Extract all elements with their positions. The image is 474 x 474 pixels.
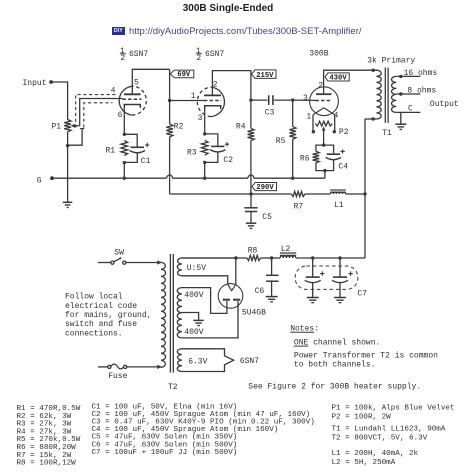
svg-text:R8: R8 — [248, 246, 258, 255]
node C7b tap — [338, 256, 341, 259]
wire R4 to rail — [250, 141, 252, 194]
wire R6C4 bottom — [316, 160, 334, 171]
node Input terminal — [23, 79, 53, 88]
wire V2 filament right to rail — [235, 258, 237, 284]
wire plate1 down — [169, 69, 171, 100]
svg-text:R2 = 62k, 3W: R2 = 62k, 3W — [17, 413, 72, 421]
wire T1 primary bottom — [365, 117, 376, 120]
wire R4 top — [250, 100, 252, 128]
label U:5V — [187, 264, 206, 273]
note follow local code — [65, 293, 151, 339]
wire rail mid — [305, 193, 331, 195]
tube U1b grid — [204, 100, 221, 102]
svg-text:Input: Input — [23, 79, 47, 88]
svg-text:R4 = 27k, 3W: R4 = 27k, 3W — [17, 428, 72, 436]
wire 5V bottom — [182, 276, 228, 285]
svg-text:C7 = 100uF + 100uF JJ (min 500: C7 = 100uF + 100uF JJ (min 500V) — [92, 449, 238, 457]
P2 wiper arrow — [322, 126, 326, 145]
note see figure 2 — [248, 382, 421, 391]
tube U1a cathode — [124, 105, 140, 108]
svg-text:R1 = 470R,0.5W: R1 = 470R,0.5W — [17, 405, 81, 413]
node P2 right end — [333, 130, 336, 133]
tube V1 plate — [316, 93, 332, 95]
node G3 — [291, 98, 294, 101]
wire R6C4 top — [316, 145, 334, 153]
pin 5 label U1a — [134, 78, 139, 87]
svg-text:1: 1 — [191, 92, 196, 101]
wire HV top to left plate — [182, 288, 227, 314]
label 400V upper — [184, 291, 203, 300]
node rectifier out — [234, 256, 237, 259]
wire U1b plate lead — [212, 71, 251, 100]
label SW — [114, 248, 124, 257]
svg-text:5U4GB: 5U4GB — [242, 309, 266, 318]
node plate1 — [168, 99, 171, 102]
wire T1 to PSU — [364, 119, 366, 258]
svg-text:6SN7: 6SN7 — [240, 357, 259, 366]
tube U1b cathode — [205, 106, 221, 109]
ground C5 — [246, 223, 256, 228]
node K1 bottom — [123, 161, 126, 164]
wire grid 300B — [293, 99, 316, 101]
wire U1b cathode lead — [204, 109, 206, 134]
svg-text:R7: R7 — [294, 203, 304, 212]
ground C7a — [307, 298, 319, 303]
transformer T2 primary — [161, 262, 166, 367]
switch SW — [98, 257, 159, 264]
svg-text:R7 = 15k, 2W: R7 = 15k, 2W — [17, 452, 72, 460]
svg-text:connections.: connections. — [65, 329, 123, 338]
note one channel — [294, 338, 380, 347]
pin 2 label V1 — [318, 81, 323, 90]
svg-text:430V: 430V — [329, 74, 347, 82]
wire input to P1 — [51, 82, 68, 120]
wire to bus end — [324, 171, 326, 179]
ground P1 — [63, 202, 73, 207]
label Fuse — [108, 372, 127, 381]
capacitor C2 — [210, 142, 233, 165]
wire 16 ohm tap — [396, 69, 437, 78]
svg-text:5: 5 — [134, 78, 139, 87]
tube V2 filament — [228, 284, 236, 290]
inductor L2 — [280, 245, 296, 258]
wire B+ rail — [182, 257, 365, 259]
shield dashed outer — [76, 95, 118, 128]
svg-text:3: 3 — [198, 114, 203, 123]
transformer T2 core — [170, 254, 173, 373]
ground T1 common — [395, 112, 406, 129]
shield dashed inner — [84, 103, 113, 128]
callout 69V — [170, 70, 194, 79]
wire R5 top — [292, 100, 294, 126]
wire HV bottom to right plate — [182, 301, 238, 338]
resistor R2 — [166, 123, 183, 137]
svg-text:2: 2 — [196, 54, 201, 63]
svg-text:L2 = 5H, 250mA: L2 = 5H, 250mA — [332, 459, 396, 467]
node G terminal — [37, 176, 54, 185]
node cathode net top — [322, 143, 325, 146]
svg-text:See Figure 2 for 300B heater s: See Figure 2 for 300B heater supply. — [248, 382, 421, 391]
svg-text:R2: R2 — [174, 123, 184, 132]
resistor R3 — [187, 140, 208, 157]
tube V1 grid — [316, 100, 333, 102]
pin 1 label V1 — [306, 113, 311, 122]
wire K2 to bus — [204, 162, 206, 178]
P1 wiper arrow — [71, 124, 80, 128]
wire C1 bottom — [124, 153, 137, 163]
svg-text:for mains, ground,: for mains, ground, — [65, 311, 151, 320]
svg-text:R5: R5 — [276, 137, 286, 146]
wire 5V top — [182, 257, 236, 259]
svg-text:3k Primary: 3k Primary — [367, 57, 415, 66]
capacitor C7 dashed outline — [295, 266, 358, 289]
wire rail right — [346, 193, 365, 195]
DIY badge — [112, 27, 125, 35]
svg-text:U:5V: U:5V — [187, 264, 206, 273]
svg-text:Power Transformer T2 is common: Power Transformer T2 is common — [294, 352, 438, 361]
svg-text:6: 6 — [118, 111, 123, 120]
pin 3 label V1 — [303, 94, 308, 103]
node R3C2 on bus — [203, 177, 206, 180]
svg-text:1: 1 — [306, 113, 311, 122]
svg-text:R3: R3 — [187, 149, 197, 158]
svg-text:8 ohms: 8 ohms — [407, 87, 436, 96]
svg-text:P2 = 100R, 2W: P2 = 100R, 2W — [332, 414, 392, 422]
resistor R1 — [106, 141, 128, 156]
node R5 on bus — [291, 177, 294, 180]
potentiometer P1 — [52, 120, 72, 132]
svg-text:400V: 400V — [184, 328, 203, 337]
wire U1a cathode lead — [123, 108, 125, 134]
wire plate2 to C3 — [251, 99, 268, 101]
title 300B Single-Ended — [0, 3, 456, 14]
pin 6 label U1a — [118, 111, 123, 120]
capacitor C1 — [130, 143, 151, 166]
pin 2 label U1b — [213, 80, 218, 89]
svg-text:C: C — [408, 105, 413, 114]
capacitor C6 — [255, 258, 279, 296]
node cathode net bottom — [323, 169, 326, 172]
svg-text:L1 = 200H, 40mA, 2k: L1 = 200H, 40mA, 2k — [332, 450, 419, 458]
resistor R4 — [236, 123, 254, 141]
svg-text:R1: R1 — [106, 147, 116, 156]
tube U1a grid — [123, 98, 142, 100]
svg-text:C1: C1 — [141, 157, 151, 166]
ground center tap — [193, 320, 204, 325]
svg-text:C3: C3 — [265, 108, 275, 117]
tube V1 label 300B — [309, 49, 328, 58]
capacitor C7a — [305, 258, 325, 297]
node P2 left end — [312, 130, 315, 133]
svg-text:3: 3 — [303, 94, 308, 103]
node plate2 — [249, 98, 252, 101]
value list capacitors — [92, 403, 315, 457]
tube V2 envelope 5U4GB — [218, 284, 243, 309]
svg-text:electrical code: electrical code — [65, 302, 137, 311]
tube U1b label 1/2 6SN7 — [196, 47, 225, 63]
capacitor C7b — [332, 258, 353, 297]
svg-text:to both channels.: to both channels. — [294, 361, 376, 370]
svg-text:300B: 300B — [309, 49, 328, 58]
wire C1 top branch — [124, 134, 137, 146]
svg-text:C7: C7 — [357, 289, 367, 298]
label 400V lower — [184, 328, 203, 337]
svg-text:T2: T2 — [168, 383, 178, 392]
wire 6.3V flag — [182, 349, 234, 372]
inductor L1 — [330, 190, 346, 210]
svg-text:R6: R6 — [300, 155, 310, 164]
pin 4 label U1a — [111, 86, 116, 95]
svg-text:6SN7: 6SN7 — [205, 50, 224, 59]
resistor R7 — [291, 191, 305, 211]
svg-text:R3 = 27k, 3W: R3 = 27k, 3W — [17, 421, 72, 429]
svg-text:R6 = 880R,20W: R6 = 880R,20W — [17, 444, 77, 452]
transformer T1 primary — [376, 70, 381, 119]
svg-text:P1 = 100k, Alps Blue Velvet: P1 = 100k, Alps Blue Velvet — [332, 405, 455, 413]
svg-text:C5: C5 — [262, 213, 272, 222]
label 6SN7 heaters — [240, 357, 259, 366]
tube V1 filament — [313, 108, 335, 115]
op tube U1a envelope — [119, 86, 146, 115]
tube U1b plate — [204, 94, 221, 96]
fuse F1 — [98, 364, 162, 369]
wire HV center tap — [182, 313, 199, 321]
node 290V — [249, 192, 252, 195]
node R1C1 on bus — [123, 177, 126, 180]
svg-text:R4: R4 — [236, 123, 246, 132]
callout 215V — [252, 70, 276, 80]
node T1 primary top — [372, 69, 375, 72]
callout 290V — [252, 183, 277, 193]
node rail tap — [363, 192, 366, 195]
potentiometer P2 — [315, 121, 348, 137]
wire rail left — [170, 193, 292, 195]
svg-text:C2: C2 — [223, 156, 233, 165]
transformer T2 6.3V winding — [177, 349, 182, 372]
value list resistors — [17, 405, 81, 468]
transformer T1 secondary — [391, 76, 396, 112]
transformer T2 5V winding — [177, 258, 182, 276]
svg-text:switch and fuse: switch and fuse — [65, 320, 137, 329]
node P1-shield junction — [66, 144, 69, 147]
wire R5 to bus — [292, 139, 294, 178]
wire C3 to grid node — [274, 99, 293, 101]
node K2 bottom — [203, 161, 206, 164]
wire U1a plate lead — [132, 69, 169, 93]
ground C7b — [334, 298, 346, 303]
url diyAudioProjects — [129, 26, 362, 37]
svg-text:T1 = Lundahl LL1623, 90mA: T1 = Lundahl LL1623, 90mA — [332, 426, 446, 434]
svg-text:400V: 400V — [184, 291, 203, 300]
label T1 — [382, 129, 392, 138]
shield end dash — [80, 128, 84, 130]
svg-text:L2: L2 — [281, 245, 291, 254]
value list pots transformers chokes — [332, 405, 455, 467]
label 6.3V — [188, 358, 207, 367]
transformer T2 HV winding — [177, 288, 182, 338]
tube U1a label 1/2 6SN7 — [120, 47, 149, 63]
node C6 tap — [270, 256, 273, 259]
tube V2 plates — [223, 299, 240, 301]
svg-text:L1: L1 — [334, 201, 344, 210]
transformer T1 core — [385, 68, 388, 123]
svg-text:4: 4 — [111, 86, 116, 95]
wire common tap — [396, 105, 420, 114]
node K2 top — [203, 132, 206, 135]
svg-text:Fuse: Fuse — [108, 372, 127, 381]
wire R2 to rail — [169, 137, 171, 194]
label 5U4GB — [242, 309, 266, 318]
svg-text:2: 2 — [213, 80, 218, 89]
svg-text:R5 = 270k,0.5W: R5 = 270k,0.5W — [17, 436, 81, 444]
resistor R8 — [247, 246, 261, 260]
pin 1 label U1b — [191, 92, 196, 101]
wire 8 ohm tap — [396, 87, 436, 96]
svg-text:T1: T1 — [382, 129, 392, 138]
wire V1 plate lead — [324, 70, 378, 93]
svg-text:C4: C4 — [338, 162, 348, 171]
wire SW to T2 arrowhead — [157, 260, 162, 264]
wire wiper conductor — [80, 99, 123, 126]
resistor R6 — [300, 151, 319, 163]
capacitor C3 — [265, 95, 275, 117]
svg-text:G: G — [37, 176, 42, 185]
note Notes heading — [290, 324, 319, 333]
wire filament right lead — [334, 115, 336, 132]
node C7a tap — [311, 256, 314, 259]
wire shield drain — [68, 129, 83, 145]
tube V1 envelope — [310, 87, 339, 116]
svg-text:2: 2 — [318, 81, 323, 90]
svg-text:6SN7: 6SN7 — [129, 50, 148, 59]
resistor R5 — [276, 127, 296, 147]
wire P1 bottom — [67, 132, 69, 146]
svg-text:SW: SW — [114, 248, 124, 257]
svg-text:290V: 290V — [256, 184, 274, 192]
svg-text:P2: P2 — [339, 128, 349, 137]
note power transformer — [294, 352, 438, 370]
svg-text:C6: C6 — [255, 287, 265, 296]
svg-text:16 ohms: 16 ohms — [404, 69, 438, 78]
ground C6 — [266, 297, 278, 302]
label C7 — [357, 289, 367, 298]
label 3k Primary — [367, 57, 415, 66]
pin 4 label V1 — [334, 112, 339, 121]
capacitor C5 — [244, 194, 272, 223]
svg-text:Output: Output — [430, 100, 459, 109]
label Output — [430, 100, 459, 109]
svg-text:69V: 69V — [177, 71, 191, 79]
wire C2 top branch — [205, 134, 218, 146]
wire C2 bottom — [205, 152, 218, 163]
svg-text:215V: 215V — [256, 72, 274, 80]
wire plate1 to R2 — [169, 101, 171, 125]
tube U1a plate — [124, 93, 141, 95]
callout 430V — [325, 73, 349, 83]
wire ground bus — [52, 175, 325, 178]
wire filament left lead — [312, 115, 314, 132]
svg-text:T2 = 800VCT, 5V, 6.3V: T2 = 800VCT, 5V, 6.3V — [332, 435, 428, 443]
wire P1 to ground — [67, 146, 69, 202]
capacitor C4 — [326, 149, 349, 171]
wire K1 to bus — [123, 163, 125, 179]
pin 3 label U1b — [198, 114, 203, 123]
svg-text:P1: P1 — [52, 123, 62, 132]
svg-text:2: 2 — [120, 54, 125, 63]
wire to U1b grid — [170, 100, 204, 102]
node K1 top — [123, 133, 126, 136]
svg-text:6.3V: 6.3V — [188, 358, 207, 367]
tube U1b envelope — [197, 87, 224, 117]
svg-text:R8 = 100R,12W: R8 = 100R,12W — [17, 460, 77, 468]
svg-text:Follow local: Follow local — [65, 293, 123, 302]
label T2 — [168, 383, 178, 392]
